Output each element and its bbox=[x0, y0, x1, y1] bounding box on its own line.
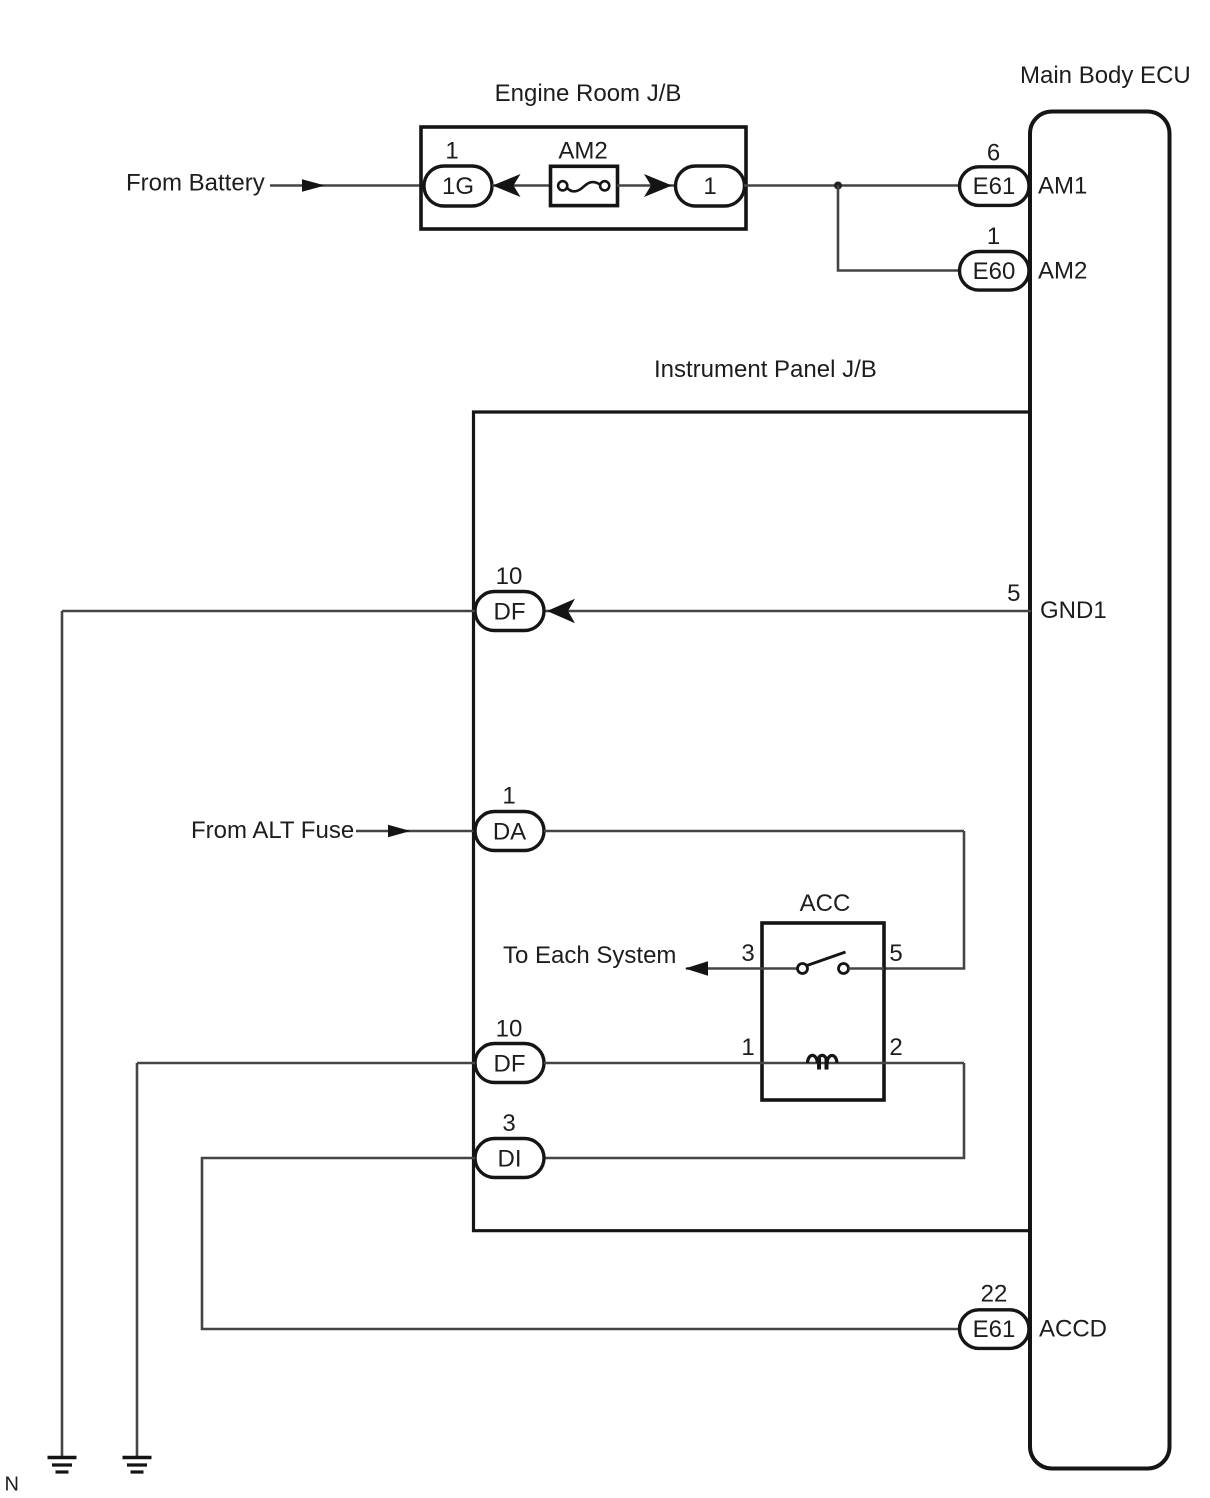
connector oval DI bbox=[475, 1139, 544, 1178]
svg-text:Instrument Panel J/B: Instrument Panel J/B bbox=[654, 356, 877, 383]
wire left rail 2 down to ground bbox=[136, 1063, 139, 1457]
svg-text:From Battery: From Battery bbox=[126, 170, 265, 197]
fuse AM2 symbol bbox=[558, 181, 567, 190]
junction node bbox=[834, 182, 842, 190]
wire 1G to fuse bbox=[492, 184, 551, 187]
wire DF to left rail bbox=[62, 610, 475, 613]
svg-text:DA: DA bbox=[493, 819, 526, 846]
svg-text:To Each System: To Each System bbox=[503, 942, 676, 969]
svg-text:E60: E60 bbox=[973, 258, 1016, 285]
svg-text:1: 1 bbox=[703, 173, 716, 200]
wire DF2 to left rail 2 bbox=[137, 1062, 475, 1065]
svg-text:DF: DF bbox=[494, 599, 526, 626]
svg-text:ACCD: ACCD bbox=[1039, 1315, 1107, 1342]
connector oval DA bbox=[475, 812, 544, 851]
svg-text:DF: DF bbox=[494, 1051, 526, 1078]
svg-text:6: 6 bbox=[987, 140, 1000, 167]
connector oval DF bbox=[475, 592, 544, 631]
connector oval DF2 bbox=[475, 1044, 544, 1083]
svg-text:E61: E61 bbox=[973, 1316, 1016, 1343]
svg-text:Engine Room J/B: Engine Room J/B bbox=[495, 80, 682, 107]
relay coil bbox=[808, 1055, 837, 1063]
wire DA to right rail bbox=[544, 830, 964, 833]
arrow to each system bbox=[685, 961, 708, 975]
chevron arrow pointing left at DF bbox=[547, 599, 575, 623]
svg-text:3: 3 bbox=[741, 940, 754, 967]
connector oval E60 bbox=[960, 252, 1030, 291]
wire to each system bbox=[686, 967, 798, 970]
switch contact left bbox=[798, 964, 808, 974]
ground 1 bbox=[48, 1456, 77, 1460]
svg-text:From ALT Fuse: From ALT Fuse bbox=[191, 817, 354, 844]
svg-text:10: 10 bbox=[496, 1016, 523, 1043]
wire coil output down to DI row bbox=[544, 1063, 964, 1158]
svg-text:GND1: GND1 bbox=[1040, 597, 1107, 624]
wire DF2 through relay coil row bbox=[544, 1062, 964, 1065]
wire GND1 row bbox=[544, 610, 1031, 613]
Main Body ECU box bbox=[1030, 112, 1170, 1469]
svg-text:3: 3 bbox=[502, 1110, 515, 1137]
wire right rail down to ACC pin 5 bbox=[884, 831, 964, 969]
wire left rail down to ground bbox=[61, 611, 64, 1457]
svg-text:5: 5 bbox=[1007, 580, 1020, 607]
chevron arrow pointing left at 1G bbox=[493, 174, 521, 197]
svg-text:1: 1 bbox=[987, 223, 1000, 250]
connector oval 1G bbox=[424, 166, 492, 206]
wire switch right to rail bbox=[849, 967, 885, 970]
svg-text:2: 2 bbox=[889, 1034, 902, 1061]
arrow on from-battery wire bbox=[302, 179, 325, 191]
instrument panel J/B box bbox=[474, 412, 1032, 1231]
svg-text:1: 1 bbox=[741, 1034, 754, 1061]
wire branch down to E60 bbox=[838, 186, 960, 271]
engine room J/B box bbox=[421, 127, 746, 229]
chevron arrow pointing right before oval 1 bbox=[644, 174, 672, 197]
svg-text:E61: E61 bbox=[973, 173, 1016, 200]
switch contact right bbox=[839, 964, 849, 974]
ground 2 bbox=[123, 1456, 152, 1460]
svg-text:5: 5 bbox=[889, 940, 902, 967]
svg-text:DI: DI bbox=[498, 1146, 522, 1173]
wire DI to ACCD row bbox=[202, 1158, 960, 1329]
wire from battery to 1G bbox=[270, 184, 424, 187]
fuse AM2 box bbox=[551, 166, 618, 205]
svg-text:N: N bbox=[5, 1474, 19, 1496]
svg-text:AM2: AM2 bbox=[1038, 258, 1087, 285]
wire oval 1 to E61 bbox=[744, 184, 960, 187]
svg-text:Main Body ECU: Main Body ECU bbox=[1020, 62, 1191, 89]
svg-text:1: 1 bbox=[502, 783, 515, 810]
svg-text:22: 22 bbox=[981, 1281, 1008, 1308]
svg-text:AM1: AM1 bbox=[1038, 173, 1087, 200]
switch blade bbox=[807, 952, 846, 966]
svg-text:1: 1 bbox=[445, 138, 458, 165]
svg-text:ACC: ACC bbox=[800, 890, 851, 917]
svg-text:10: 10 bbox=[496, 563, 523, 590]
connector oval 1 bbox=[676, 166, 745, 206]
connector oval E61 ACCD bbox=[960, 1310, 1030, 1349]
arrow on ALT fuse wire bbox=[388, 825, 411, 837]
svg-text:1G: 1G bbox=[442, 173, 474, 200]
connector oval E61 bbox=[960, 167, 1030, 206]
wire fuse to oval 1 bbox=[617, 184, 676, 187]
wire from ALT fuse to DA bbox=[356, 830, 475, 833]
relay ACC box bbox=[762, 923, 884, 1100]
svg-text:AM2: AM2 bbox=[558, 138, 607, 165]
